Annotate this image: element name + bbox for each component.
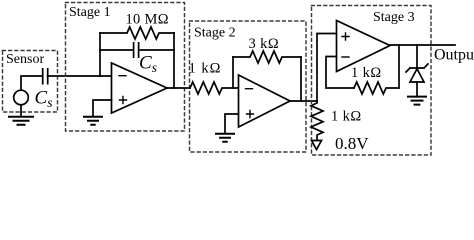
U2 output wire (290, 100, 317, 102)
U1 plus input wire (93, 100, 112, 116)
ground G2 (216, 134, 234, 142)
svg-text:Sensor: Sensor (6, 52, 44, 67)
wire circle-bottom to ground (20, 105, 22, 116)
feedback left leg (99, 33, 101, 76)
zener D1 (406, 64, 428, 72)
feedback left leg U2 (232, 57, 234, 88)
U2 plus input wire (225, 114, 239, 133)
op-amp U1 (112, 63, 168, 113)
wire circle-top to cap (21, 76, 42, 90)
U3 minus (342, 56, 349, 58)
ground G3 (408, 97, 426, 105)
U1 output wire (167, 87, 190, 89)
feedback right leg U2 (300, 57, 302, 101)
resistor R3 3k (233, 51, 301, 63)
resistor R4 1k feedback (354, 82, 399, 94)
op-amp U3 (337, 21, 391, 72)
svg-text:0.8V: 0.8V (335, 134, 369, 153)
svg-text:Stage 2: Stage 2 (194, 26, 236, 41)
ground (sensor) (9, 117, 33, 125)
svg-text:Cs: Cs (35, 88, 53, 111)
svg-text:1 kΩ: 1 kΩ (189, 61, 222, 77)
capacitor C1 plates (134, 43, 139, 57)
U3 plus input wire (317, 34, 336, 102)
op-amp U2 (239, 75, 291, 127)
U2 minus (246, 88, 253, 90)
stage2 box (190, 21, 307, 152)
U3 output wire (390, 44, 455, 46)
resistor R2 1k (190, 82, 238, 94)
zener top leg (416, 45, 418, 68)
feedback right leg U3 (398, 45, 400, 88)
ground G1 (84, 117, 102, 125)
feedback right leg (173, 33, 175, 88)
svg-text:Cs: Cs (139, 53, 157, 76)
sensor source circle (14, 90, 29, 105)
zener bottom leg (416, 82, 418, 96)
sensor box (3, 51, 58, 113)
U3 plus (342, 33, 349, 40)
stage1 box (66, 3, 185, 132)
svg-text:3 kΩ: 3 kΩ (249, 36, 280, 52)
wire cap to stage1 (48, 75, 111, 77)
svg-text:Stage 1: Stage 1 (69, 5, 111, 20)
resistor R5 1k vertical (311, 101, 323, 140)
svg-text:10 MΩ: 10 MΩ (126, 12, 169, 28)
svg-text:Output: Output (434, 47, 474, 64)
U2 plus (247, 111, 254, 118)
U3 minus input wire (326, 57, 354, 89)
capacitor Cs (sensor) (43, 69, 48, 84)
U1 plus (120, 97, 127, 104)
U1 minus (119, 75, 126, 77)
capacitor C1 branch left (100, 49, 133, 51)
0.8V arrow (312, 141, 322, 150)
svg-text:1 kΩ: 1 kΩ (351, 65, 382, 81)
stage3 box (312, 6, 432, 156)
resistor R1 10M (100, 27, 174, 39)
svg-text:Stage 3: Stage 3 (373, 10, 415, 25)
svg-text:1 kΩ: 1 kΩ (331, 109, 362, 125)
capacitor C1 branch right (139, 49, 174, 51)
